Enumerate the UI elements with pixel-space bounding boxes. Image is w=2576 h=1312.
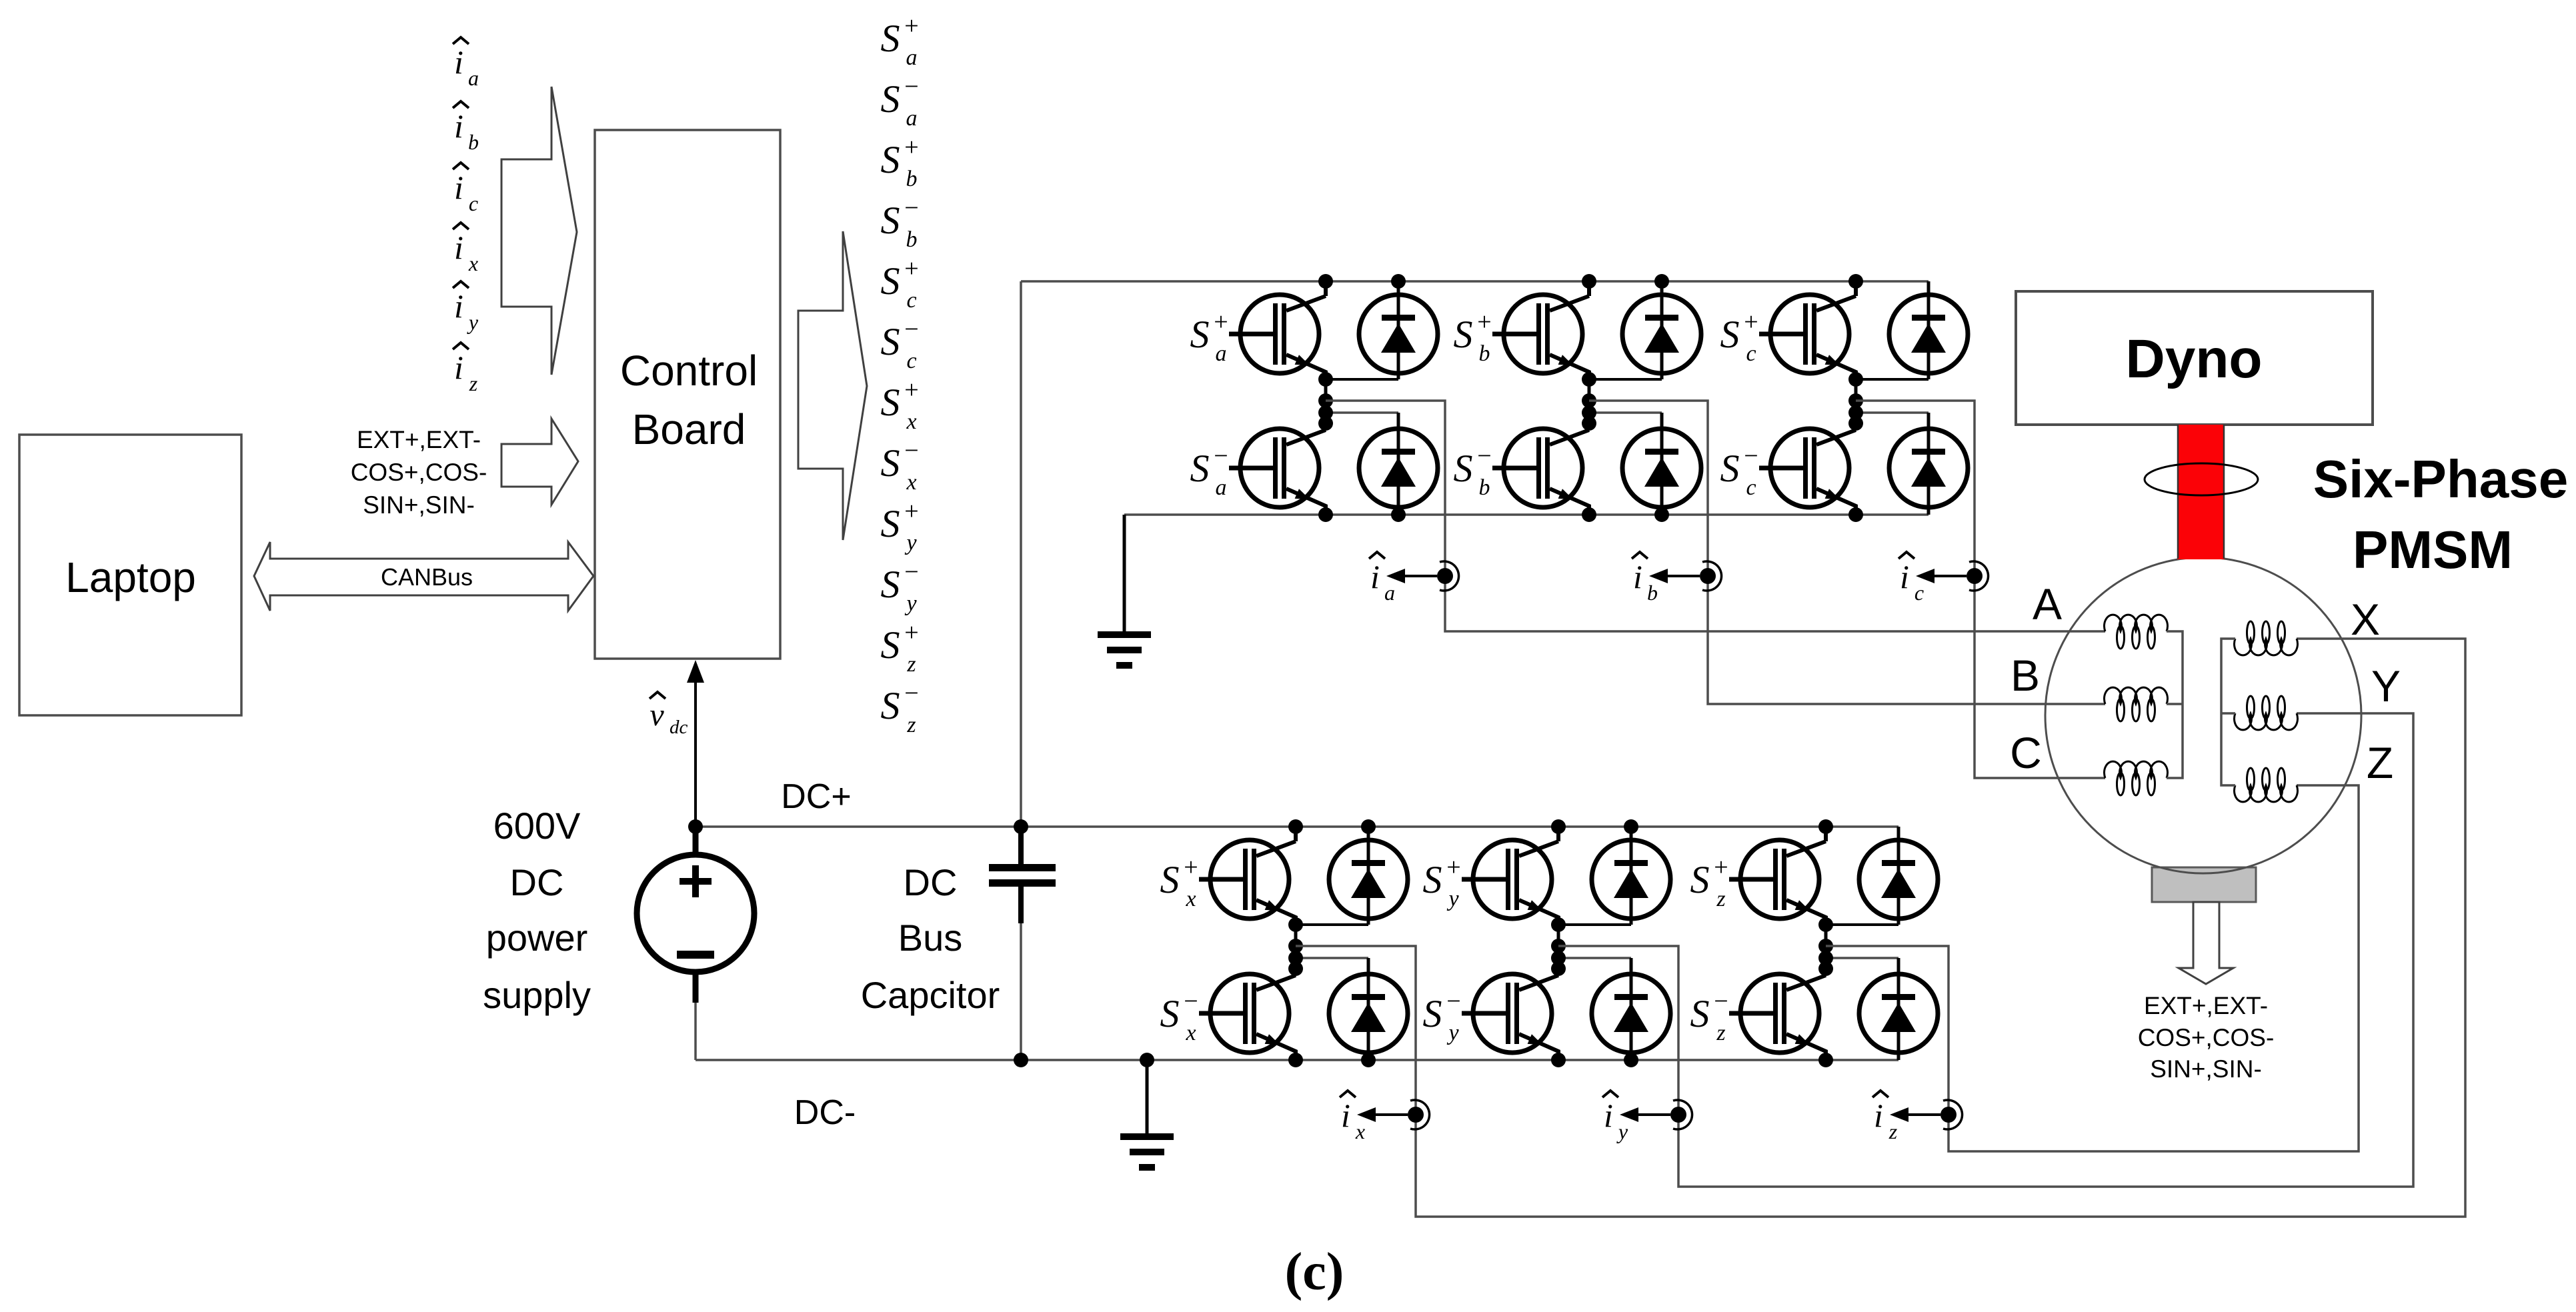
svg-text:i: i: [1370, 558, 1380, 595]
svg-text:S: S: [881, 199, 900, 242]
svg-text:EXT+,EXT-: EXT+,EXT-: [2144, 992, 2268, 1019]
phase Y wire: [1558, 713, 2413, 1187]
svg-text:Control: Control: [620, 347, 758, 395]
svg-text:i: i: [454, 229, 463, 266]
abc star bracket: [2167, 631, 2183, 778]
svg-text:y: y: [467, 310, 479, 334]
svg-text:Board: Board: [632, 405, 746, 453]
svg-text:z: z: [1716, 1021, 1725, 1045]
svg-text:power: power: [486, 917, 588, 959]
winding Z: [2235, 768, 2298, 802]
svg-text:c: c: [1746, 475, 1756, 500]
phase B wire: [1589, 401, 2105, 704]
vdc sense wire: [694, 680, 697, 827]
svg-text:i: i: [454, 349, 463, 386]
svg-text:DC-: DC-: [794, 1093, 856, 1132]
svg-text:S: S: [881, 138, 900, 181]
rail junction dots at diodes (legs a,b): [1391, 274, 1406, 289]
svg-text:dc: dc: [670, 717, 688, 738]
svg-text:i: i: [1341, 1097, 1350, 1134]
phase Z current sensor: [1890, 1100, 1963, 1129]
svg-text:a: a: [468, 66, 479, 90]
laptop box: [19, 435, 241, 715]
phase A current sensor: [1386, 561, 1459, 591]
svg-text:S: S: [881, 320, 900, 363]
top bridge DC+ rail: [1021, 280, 1928, 283]
svg-text:+: +: [904, 12, 918, 40]
gate signals block arrow: [798, 231, 867, 540]
svg-text:PMSM: PMSM: [2353, 520, 2513, 579]
IGBT leg Sx lower bridge: [1199, 819, 1408, 1067]
current feedback block arrow: [501, 87, 577, 375]
six-phase PMSM stator circle: [2045, 557, 2361, 873]
ground (top bridge): [1123, 515, 1126, 631]
svg-text:S: S: [881, 563, 900, 606]
svg-text:b: b: [1647, 581, 1658, 605]
svg-text:Y: Y: [2371, 661, 2401, 711]
svg-text:B: B: [2011, 651, 2040, 700]
Dyno box: [2016, 291, 2373, 425]
svg-text:+: +: [904, 619, 918, 647]
svg-text:+: +: [904, 497, 918, 525]
svg-text:y: y: [1446, 1021, 1459, 1045]
svg-text:DC: DC: [904, 861, 958, 903]
svg-text:a: a: [1216, 475, 1227, 500]
svg-text:−: −: [904, 73, 918, 101]
svg-text:+: +: [1714, 853, 1728, 881]
phase A wire: [1326, 401, 2105, 631]
phase Z wire: [1826, 785, 2359, 1151]
svg-text:S: S: [881, 381, 900, 424]
svg-text:S: S: [881, 502, 900, 545]
svg-text:−: −: [1714, 987, 1728, 1015]
phase Y current sensor: [1620, 1100, 1692, 1129]
svg-text:i: i: [1874, 1097, 1883, 1134]
svg-text:z: z: [1716, 887, 1725, 911]
svg-text:−: −: [904, 558, 918, 586]
winding Y: [2235, 696, 2298, 730]
svg-text:S: S: [881, 77, 900, 121]
shaft: [2177, 425, 2225, 559]
svg-text:S: S: [1190, 313, 1210, 356]
svg-text:S: S: [881, 684, 900, 727]
svg-text:S: S: [1160, 858, 1180, 901]
IGBT leg Sb top bridge: [1492, 274, 1701, 522]
svg-text:x: x: [906, 470, 916, 495]
svg-text:x: x: [468, 251, 478, 275]
svg-text:S: S: [881, 17, 900, 60]
svg-text:a: a: [906, 45, 918, 70]
svg-text:b: b: [906, 167, 918, 191]
DC bus capacitor: [1018, 829, 1024, 864]
svg-text:S: S: [881, 441, 900, 485]
svg-text:c: c: [906, 349, 916, 373]
svg-text:z: z: [906, 652, 916, 677]
svg-text:−: −: [1184, 987, 1198, 1015]
svg-text:S: S: [1690, 858, 1710, 901]
svg-text:Z: Z: [2367, 738, 2393, 787]
svg-text:Bus: Bus: [898, 917, 963, 959]
svg-text:A: A: [2033, 579, 2062, 629]
phase B current sensor: [1649, 561, 1722, 591]
svg-text:X: X: [2351, 595, 2380, 644]
svg-text:S: S: [1720, 447, 1740, 490]
winding B: [2105, 687, 2168, 721]
svg-text:S: S: [1190, 447, 1210, 490]
phase X current sensor: [1357, 1100, 1430, 1129]
winding X: [2235, 621, 2298, 655]
svg-text:i: i: [1900, 558, 1909, 595]
svg-text:SIN+,SIN-: SIN+,SIN-: [2150, 1055, 2262, 1083]
svg-text:c: c: [1746, 341, 1756, 366]
svg-text:z: z: [906, 713, 916, 737]
svg-text:−: −: [904, 194, 918, 222]
svg-text:b: b: [1479, 475, 1490, 500]
IGBT leg Sa top bridge: [1229, 274, 1438, 522]
winding A: [2105, 615, 2168, 649]
svg-text:C: C: [2010, 728, 2042, 777]
svg-text:i: i: [454, 287, 463, 325]
svg-text:+: +: [904, 376, 918, 404]
phase X wire: [1296, 639, 2465, 1217]
svg-text:COS+,COS-: COS+,COS-: [351, 459, 487, 486]
600V DC power supply source: [637, 855, 754, 972]
svg-text:y: y: [904, 591, 917, 616]
svg-text:COS+,COS-: COS+,COS-: [2138, 1024, 2275, 1051]
svg-text:EXT+,EXT-: EXT+,EXT-: [357, 426, 481, 453]
phase C current sensor: [1916, 561, 1989, 591]
top bridge emitter rail: [1124, 513, 1928, 516]
svg-text:+: +: [1446, 853, 1460, 881]
svg-text:x: x: [1185, 1021, 1196, 1045]
svg-text:y: y: [1616, 1119, 1628, 1143]
svg-text:i: i: [1604, 1097, 1613, 1134]
svg-text:c: c: [1914, 581, 1924, 605]
resolver: [2152, 867, 2256, 902]
IGBT leg Sc top bridge: [1759, 274, 1968, 522]
svg-text:S: S: [1454, 447, 1473, 490]
svg-text:Capcitor: Capcitor: [861, 974, 1000, 1016]
IGBT leg Sz lower bridge: [1729, 819, 1938, 1067]
svg-text:−: −: [904, 679, 918, 707]
svg-text:−: −: [1477, 442, 1491, 470]
svg-text:i: i: [454, 43, 463, 81]
svg-text:DC+: DC+: [781, 777, 851, 816]
CANBus double arrow: [254, 542, 593, 611]
svg-text:x: x: [1355, 1119, 1365, 1143]
svg-text:−: −: [1744, 442, 1758, 470]
svg-text:−: −: [904, 437, 918, 465]
rotation ellipse: [2145, 463, 2258, 495]
svg-text:x: x: [906, 409, 916, 434]
svg-text:b: b: [906, 227, 918, 252]
winding C: [2105, 761, 2168, 795]
svg-text:+: +: [1744, 308, 1758, 336]
svg-text:v: v: [650, 697, 664, 733]
rail junction dots at diodes (legs x,y): [1361, 819, 1376, 834]
svg-text:S: S: [1423, 992, 1442, 1035]
svg-text:Six-Phase: Six-Phase: [2313, 449, 2568, 509]
svg-text:S: S: [1720, 313, 1740, 356]
svg-text:−: −: [1446, 987, 1460, 1015]
svg-text:S: S: [1423, 858, 1442, 901]
phase C wire: [1856, 401, 2105, 778]
svg-text:+: +: [1477, 308, 1491, 336]
IGBT leg Sy lower bridge: [1462, 819, 1670, 1067]
svg-text:S: S: [881, 259, 900, 303]
svg-text:z: z: [469, 371, 478, 395]
svg-text:(c): (c): [1285, 1243, 1344, 1301]
svg-text:S: S: [1160, 992, 1180, 1035]
svg-text:+: +: [1184, 853, 1198, 881]
svg-text:+: +: [1214, 308, 1228, 336]
svg-text:b: b: [468, 130, 479, 154]
svg-text:a: a: [906, 106, 918, 131]
svg-text:600V: 600V: [493, 805, 581, 847]
svg-text:c: c: [469, 191, 478, 215]
svg-text:y: y: [904, 531, 917, 555]
svg-text:CANBus: CANBus: [381, 563, 473, 591]
svg-text:SIN+,SIN-: SIN+,SIN-: [363, 491, 475, 519]
svg-text:i: i: [454, 169, 463, 206]
svg-text:S: S: [1690, 992, 1710, 1035]
ground (lower bridge): [1146, 1060, 1149, 1133]
svg-text:y: y: [1446, 887, 1459, 911]
resolver output arrow: [2179, 902, 2233, 984]
svg-text:a: a: [1216, 341, 1227, 366]
svg-text:S: S: [1454, 313, 1473, 356]
svg-text:+: +: [904, 255, 918, 283]
svg-text:Laptop: Laptop: [65, 553, 196, 601]
svg-text:b: b: [1479, 341, 1490, 366]
svg-text:−: −: [1214, 442, 1228, 470]
DC- rail: [696, 1059, 1898, 1061]
top bridge left edge / capacitor branch: [1020, 281, 1022, 864]
svg-text:i: i: [454, 107, 463, 145]
svg-text:supply: supply: [483, 974, 591, 1016]
svg-text:c: c: [906, 288, 916, 313]
svg-text:S: S: [881, 623, 900, 667]
control board box: [595, 130, 780, 659]
svg-text:i: i: [1633, 558, 1642, 595]
svg-text:Dyno: Dyno: [2126, 329, 2263, 389]
xyz star bracket: [2221, 639, 2235, 785]
DC+ rail: [696, 825, 1898, 828]
svg-text:DC: DC: [510, 861, 564, 903]
svg-text:−: −: [904, 315, 918, 343]
svg-text:x: x: [1185, 887, 1196, 911]
svg-text:z: z: [1888, 1119, 1898, 1143]
svg-text:a: a: [1384, 581, 1395, 605]
resolver signals block arrow: [501, 419, 578, 505]
svg-text:+: +: [904, 133, 918, 161]
